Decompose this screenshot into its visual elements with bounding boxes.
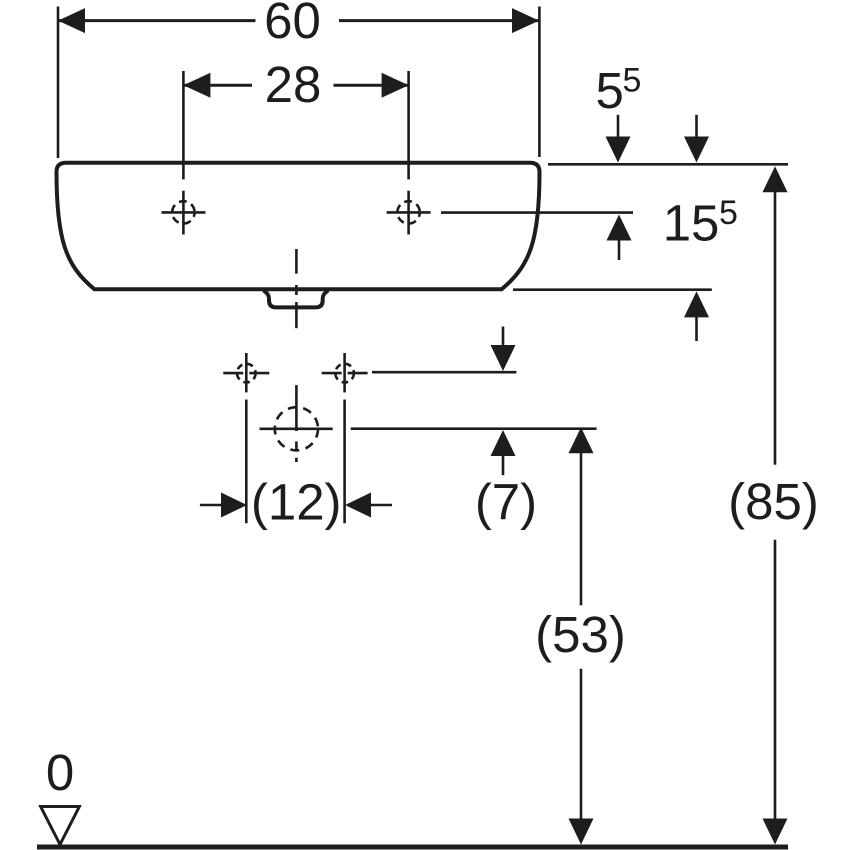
left fixing hole: vertical centerline upper [245, 353, 248, 392]
reference line: tap hole level extended right [441, 211, 633, 214]
left fixing hole: dashed circle [237, 364, 256, 383]
dim 60: left extension line [57, 7, 60, 159]
drain centerline segment 6 [295, 458, 298, 462]
dim 60: right extension line [538, 7, 541, 158]
dim 5.5: down arrowhead [606, 137, 631, 163]
svg-text:(85): (85) [728, 473, 819, 530]
dim 28: dimension line right segment [334, 84, 409, 87]
dim (12): left arrow stem [200, 504, 221, 507]
dim (7): up arrowhead [491, 430, 516, 456]
left tap hole: centerline vertical lower [182, 191, 185, 235]
svg-text:(12): (12) [251, 474, 342, 531]
dim 5.5: lower arrow stem [618, 240, 621, 260]
dim 28: left arrowhead [183, 73, 210, 98]
drain centerline segment 2 [295, 285, 298, 295]
svg-text:5: 5 [596, 62, 624, 119]
left tap hole: centerline vertical upper (28 ext line) [182, 71, 185, 179]
svg-text:5: 5 [623, 62, 642, 100]
dim 60: dimension line right segment [339, 19, 539, 22]
dim 15.5: lower arrow stem [695, 317, 698, 341]
svg-text:60: 60 [264, 0, 321, 49]
waste outlet box [264, 291, 329, 308]
dim (12): left arrowhead (points right) [221, 493, 247, 518]
reference line: basin top extended right [548, 163, 788, 166]
drain hole: dashed circle [275, 407, 318, 450]
left fixing hole: horizontal centerline right [249, 372, 269, 375]
dim (53): line upper segment [580, 453, 583, 606]
dim (7): drain level line extended right [351, 427, 597, 430]
dim (53): bottom down arrowhead [569, 819, 594, 845]
dim 60: left arrowhead [58, 8, 85, 33]
svg-text:15: 15 [663, 195, 720, 252]
dim (85): line upper segment [774, 192, 777, 465]
dim (12): right arrow stem [371, 504, 392, 507]
floor line [37, 845, 788, 850]
dim 28: right arrowhead [382, 73, 409, 98]
dim (53): line lower segment [580, 669, 583, 819]
drain centerline segment 4 [295, 385, 298, 431]
dim (7): down arrowhead [491, 345, 516, 371]
left tap hole: horizontal centerline [162, 211, 206, 214]
dim 5.5: up arrowhead [607, 215, 632, 241]
dim (85): line lower segment [774, 540, 777, 819]
reference line: basin bottom extended right [513, 288, 712, 291]
drain centerline segment 1 [295, 249, 298, 274]
svg-text:5: 5 [719, 194, 738, 232]
dim 5.5: upper arrow stem [617, 115, 620, 137]
left fixing hole: horizontal centerline left [223, 372, 243, 375]
right tap hole: horizontal centerline [387, 211, 431, 214]
drain centerline segment 5 [295, 441, 298, 450]
right fixing hole: horizontal centerline left [322, 372, 342, 375]
drain hole: horizontal centerline [260, 427, 333, 430]
right tap hole: centerline vertical lower [407, 191, 410, 235]
dim 15.5: down arrowhead [684, 137, 709, 163]
washbasin outline [57, 163, 540, 289]
dim (7): fixing hole level line extended right [372, 371, 516, 374]
left tap hole: dashed circle [172, 201, 194, 223]
dim (53): top up arrowhead [569, 427, 594, 453]
right fixing hole: vertical centerline lower (12 ext) [343, 400, 346, 524]
right tap hole: dashed circle [397, 201, 419, 223]
dim 28: dimension line left segment [183, 84, 252, 87]
dim (7): upper arrow stem [502, 327, 505, 348]
dim (85): top up arrowhead [763, 166, 788, 192]
dim (7): lower arrow stem [502, 456, 505, 476]
svg-text:(53): (53) [535, 606, 626, 663]
datum triangle [41, 807, 80, 845]
dim 15.5: up arrowhead [684, 291, 709, 317]
svg-text:28: 28 [265, 56, 322, 113]
svg-text:0: 0 [46, 744, 74, 801]
dim (85): bottom down arrowhead [763, 819, 788, 845]
dim (12): right arrowhead (points left) [345, 493, 371, 518]
right fixing hole: horizontal centerline right [348, 372, 368, 375]
drain centerline segment 3 [295, 302, 298, 328]
dim 60: dimension line left segment [58, 19, 256, 22]
dim 15.5: upper arrow stem [695, 115, 698, 137]
svg-text:(7): (7) [475, 474, 537, 531]
right tap hole: centerline vertical upper (28 ext line) [407, 71, 410, 179]
right fixing hole: dashed circle [335, 364, 354, 383]
dim 60: right arrowhead [512, 8, 539, 33]
left fixing hole: vertical centerline lower (12 ext) [245, 400, 248, 524]
right fixing hole: vertical centerline upper [343, 353, 346, 392]
